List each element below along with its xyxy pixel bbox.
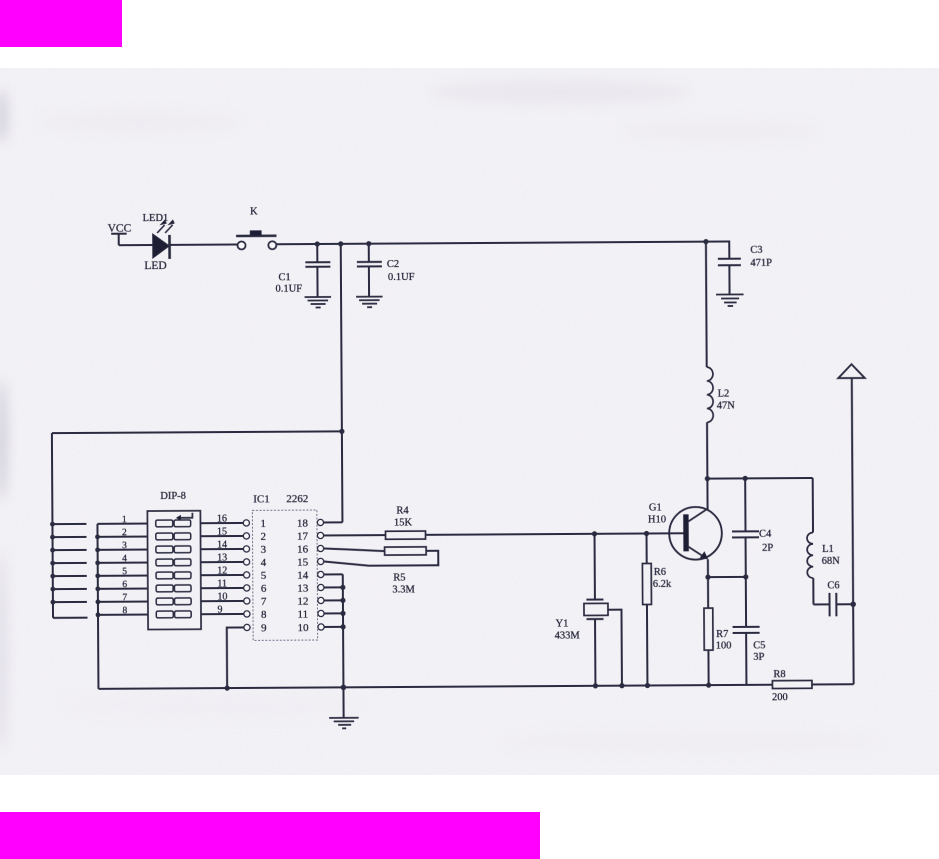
svg-text:Y1: Y1	[556, 618, 569, 629]
svg-text:R6: R6	[654, 567, 666, 578]
svg-text:2262: 2262	[286, 493, 308, 505]
node pin11	[340, 611, 345, 616]
svg-text:LED: LED	[144, 260, 166, 272]
svg-text:1: 1	[122, 515, 127, 525]
wires rows 1-8 to DIP-8	[97, 524, 148, 615]
node Y1 top junction	[592, 531, 597, 536]
svg-text:G1: G1	[649, 502, 662, 513]
node emitter junction	[705, 575, 710, 580]
resistor R5	[385, 547, 427, 596]
resistor R7	[704, 577, 732, 685]
svg-text:R7: R7	[716, 629, 728, 640]
power VCC	[108, 223, 132, 246]
svg-text:C1: C1	[278, 272, 290, 283]
svg-text:433M: 433M	[555, 630, 581, 641]
wire IC pin 10	[324, 626, 343, 628]
node R6 top junction	[644, 531, 649, 536]
svg-text:13: 13	[297, 583, 309, 595]
svg-text:5: 5	[261, 570, 267, 582]
node R6 rail junction	[645, 683, 650, 688]
wire IC pin 18 to center bus	[324, 521, 343, 523]
node pin9 rail junction	[225, 685, 230, 690]
svg-text:6.2k: 6.2k	[653, 579, 672, 590]
wire IC pin 16 to R5	[324, 548, 385, 551]
svg-text:68N: 68N	[822, 556, 841, 567]
resistor R4	[385, 505, 425, 539]
svg-text:H10: H10	[648, 514, 666, 525]
ground rail bottom	[98, 685, 746, 689]
svg-text:200: 200	[772, 692, 788, 703]
crystal Y1	[554, 534, 622, 686]
svg-text:8: 8	[122, 606, 127, 616]
svg-text:10: 10	[298, 622, 310, 634]
resistor R8	[772, 669, 854, 703]
node Y1 rail junction	[593, 683, 598, 688]
wire top link from center bus to left bus	[52, 431, 342, 433]
main VCC wire	[276, 242, 706, 245]
IC U1 2262 encoder	[252, 493, 317, 640]
wire center vertical bus	[341, 244, 343, 522]
magenta redaction block top-left	[0, 0, 122, 47]
node C3/L2 junction	[703, 239, 708, 244]
DIP switch DIP-8	[147, 491, 201, 630]
antenna	[838, 364, 866, 684]
inductor L1	[807, 478, 841, 605]
wire IC pin 17 output line	[324, 534, 386, 536]
wire R4 to transistor base	[426, 533, 684, 535]
node center junction	[338, 241, 343, 246]
transistor Q1 G1 H10	[648, 502, 722, 560]
node rail center junction	[341, 685, 347, 691]
wire emitter down	[707, 559, 709, 577]
svg-text:5: 5	[122, 567, 127, 577]
wire IC pin 13	[324, 586, 343, 588]
svg-text:11: 11	[297, 609, 308, 621]
node antenna tap junction	[850, 601, 856, 607]
node C2 junction	[366, 241, 371, 246]
DIP-8 switch elements rows 1-8	[156, 520, 191, 618]
IC1 right pin circles 18-10	[317, 519, 324, 630]
IC1 left pin circles 1-9	[243, 520, 250, 631]
wire IC pin 14 to right bus	[324, 573, 343, 575]
svg-text:2: 2	[122, 528, 127, 538]
node C1 junction	[315, 241, 320, 246]
capacitor C2	[357, 243, 415, 296]
wire left bus vertical	[52, 433, 53, 618]
ground under C2	[356, 297, 383, 308]
magenta redaction bar bottom	[0, 812, 540, 859]
svg-text:L1: L1	[822, 544, 834, 555]
wire right bus lower segment to rail	[342, 574, 345, 687]
left bus stubs rows 1-8	[52, 524, 87, 618]
wire collector rail to L1	[707, 477, 812, 480]
svg-text:6: 6	[261, 583, 267, 595]
svg-text:3P: 3P	[753, 652, 764, 663]
svg-text:C6: C6	[827, 580, 839, 591]
svg-text:2P: 2P	[762, 543, 773, 554]
svg-text:47N: 47N	[717, 400, 736, 411]
wire L2 branch top	[705, 242, 708, 367]
ground under C1	[305, 297, 332, 308]
svg-text:100: 100	[716, 640, 732, 651]
LED D1	[143, 213, 175, 272]
node C4 bottom junction	[743, 574, 748, 579]
svg-text:0.1UF: 0.1UF	[275, 284, 302, 295]
svg-text:8: 8	[261, 609, 267, 621]
IC1 internal pin numbers right	[297, 518, 309, 635]
capacitor C1	[275, 244, 330, 297]
svg-text:1: 1	[260, 518, 266, 530]
wire LED to switch K	[171, 243, 237, 245]
wire R5 loop to IC pin 15	[324, 551, 439, 566]
svg-text:16: 16	[297, 544, 309, 556]
svg-text:12: 12	[297, 596, 308, 608]
svg-text:4: 4	[261, 557, 267, 569]
svg-text:R8: R8	[773, 669, 785, 680]
IC1 internal pin numbers left	[260, 518, 267, 635]
svg-text:C2: C2	[387, 259, 399, 270]
svg-text:DIP-8: DIP-8	[160, 491, 186, 502]
wire L2 to collector rail	[706, 422, 708, 478]
svg-text:6: 6	[122, 580, 127, 590]
wire VCC to LED	[119, 244, 153, 246]
svg-text:K: K	[250, 206, 258, 217]
wire IC pin 11	[324, 612, 343, 614]
svg-text:14: 14	[297, 570, 309, 582]
node pin10	[340, 624, 345, 629]
svg-text:15: 15	[297, 557, 309, 569]
svg-text:7: 7	[261, 596, 267, 608]
svg-text:15K: 15K	[394, 517, 413, 528]
svg-text:17: 17	[297, 531, 309, 543]
svg-text:4: 4	[122, 554, 127, 564]
capacitor C6	[813, 580, 853, 616]
svg-text:IC1: IC1	[253, 493, 270, 505]
capacitor C5	[732, 577, 765, 685]
wire rail to R8	[746, 684, 772, 686]
resistor R6	[642, 533, 672, 685]
capacitor C3	[706, 241, 772, 294]
svg-text:18: 18	[297, 518, 309, 530]
svg-text:R5: R5	[393, 572, 405, 583]
switch K	[236, 206, 277, 249]
node C4 top junction	[743, 476, 748, 481]
svg-text:C3: C3	[750, 245, 762, 256]
svg-text:2: 2	[260, 531, 266, 543]
wire second vertical bus	[97, 524, 98, 689]
capacitor C4	[732, 478, 774, 577]
svg-text:3: 3	[261, 544, 267, 556]
svg-text:3.3M: 3.3M	[392, 584, 415, 595]
left bus junction dots	[50, 522, 55, 605]
wire collector up	[706, 479, 708, 509]
node Y1 case rail junction	[619, 683, 624, 688]
ground under C3	[716, 294, 744, 306]
svg-text:9: 9	[261, 622, 267, 634]
svg-text:L2: L2	[718, 388, 730, 399]
node collector rail junction	[705, 476, 710, 481]
svg-text:C5: C5	[753, 640, 765, 651]
svg-text:0.1UF: 0.1UF	[388, 272, 415, 283]
wire emitter to C4 bottom	[708, 576, 746, 578]
svg-text:LED1: LED1	[143, 213, 169, 224]
node link junction	[339, 429, 344, 434]
node pin13	[340, 585, 345, 590]
svg-text:471P: 471P	[750, 258, 772, 269]
second bus junction dots	[95, 534, 100, 617]
inductor L2	[707, 367, 736, 422]
wire IC pin 12	[324, 599, 343, 601]
svg-text:R4: R4	[396, 505, 409, 516]
svg-text:7: 7	[122, 593, 127, 603]
wire IC pin 9 to ground rail	[227, 627, 244, 688]
node pin12	[340, 598, 345, 603]
svg-text:C4: C4	[759, 529, 772, 540]
node R7 rail junction	[706, 683, 711, 688]
svg-text:3: 3	[122, 541, 127, 551]
ground symbol main	[329, 687, 359, 728]
wires DIP-8 to IC1 pins 1-8	[200, 523, 243, 614]
